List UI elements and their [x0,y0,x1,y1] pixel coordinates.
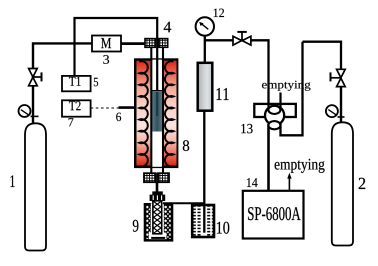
wire: cylinder 2 branch to valve 13 [303,42,342,69]
label 10 [217,222,229,234]
pressure gauge 12 [196,17,214,35]
wire: trap 9 outlet to bubbler junction [163,202,204,204]
label 7 [69,118,74,126]
label 3 [103,55,109,64]
label 2 [359,178,365,189]
label emptying (analyzer vent) [275,159,325,173]
wire: dashed thermocouple lead from T2 [91,107,119,109]
valve V3 (bowtie on line to valve 13) [233,32,251,45]
gas analyzer SP-6800A (14) [243,191,304,239]
stopper of trap 9 [150,191,166,201]
label 11 [217,88,229,100]
wire: thermocouple T1 riser and top run to gland 4 [75,18,158,76]
label 5 [94,78,98,86]
valve V1 (needle valve on cylinder 1) [29,69,42,86]
wire: quartz tube walls below furnace [151,166,163,174]
bubbler 10 [192,205,214,237]
label emptying (valve 13 vent) [262,81,310,91]
label 9 [133,220,139,232]
wire: gland to trap stopper [156,182,159,193]
gas cylinder 2 [332,122,353,245]
wire: M to gland 4 [121,42,145,45]
gland (packing fitting, bottom) [144,173,169,183]
label 1 [10,175,14,187]
wire: valve V2 to cylinder 2 [340,87,342,124]
gas cylinder 1 [25,123,46,250]
wire: junction to valve V3 and down to 4-way valve 13 [205,40,269,110]
pressure gauge on cylinder 1 [19,105,39,117]
heater left panel [137,61,151,166]
cold trap 9 [145,201,172,241]
label 14 [247,178,258,187]
wire: column 11 down into bubbler 10 [203,111,205,233]
label 12 [214,9,224,17]
label 6 [116,113,121,121]
label 4 [164,22,171,32]
heating coil left [139,61,147,166]
catalyst sample (6) [152,92,163,132]
label 13 [241,124,252,133]
wire: cylinder1 to valve V1 to M box [33,43,92,124]
tube furnace 8 [135,48,177,167]
sample top boundary [151,90,164,92]
thermocouple wire in tube [156,48,158,90]
quartz tube walls [152,60,162,167]
wire: quartz tube walls above furnace [151,47,163,60]
4-way valve 13 [254,42,302,191]
wire: gauge 12 down to column 11 [204,36,206,64]
flow meter M (3) [92,36,121,52]
temperature controller T1 (5) [62,76,91,91]
pressure gauge on cylinder 2 [326,105,345,117]
heater right panel [164,61,177,166]
heating coil right [165,61,173,166]
label 8 [183,140,189,151]
arrow: analyzer vent [287,173,291,191]
wire: thermocouple probe into furnace [119,106,138,109]
gland 4 (packing fitting, top) [145,38,168,48]
valve V2 (needle valve on cylinder 2) [331,69,346,86]
drying column 11 [198,63,213,111]
temperature controller T2 (7) [62,100,91,116]
